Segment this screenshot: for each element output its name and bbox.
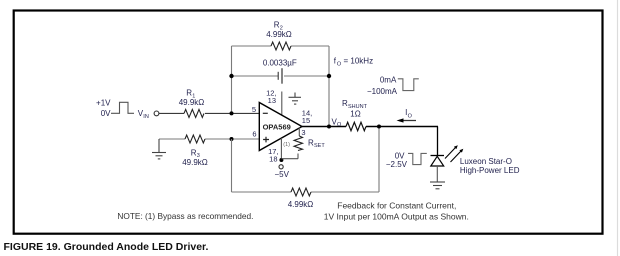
svg-text:1Ω: 1Ω [350,110,360,119]
svg-text:0.0033µF: 0.0033µF [263,58,297,67]
svg-text:5: 5 [252,105,256,114]
svg-text:O: O [337,61,342,67]
svg-text:Luxeon Star-O: Luxeon Star-O [460,157,512,166]
svg-text:18: 18 [269,155,277,164]
svg-text:3: 3 [301,128,305,137]
svg-text:0mA: 0mA [380,75,397,84]
svg-text:Feedback for Constant Current,: Feedback for Constant Current, [337,200,456,210]
svg-text:FIGURE 19. Grounded Anode LED: FIGURE 19. Grounded Anode LED Driver. [4,241,209,253]
svg-text:OPA569: OPA569 [263,123,291,132]
svg-text:15: 15 [302,116,310,125]
svg-text:−5V: −5V [274,170,289,179]
svg-text:0V: 0V [101,109,111,118]
svg-text:1V Input per 100mA Output as S: 1V Input per 100mA Output as Shown. [324,211,469,221]
svg-text:−100mA: −100mA [367,87,398,96]
svg-text:= 10kHz: = 10kHz [344,57,374,66]
svg-text:−2.5V: −2.5V [386,160,408,169]
svg-text:High-Power LED: High-Power LED [460,166,520,175]
svg-text:NOTE: (1) Bypass as recommende: NOTE: (1) Bypass as recommended. [117,211,253,221]
svg-text:0V: 0V [395,151,405,160]
svg-text:+1V: +1V [96,98,111,107]
svg-text:(1): (1) [283,142,290,148]
svg-text:4.99kΩ: 4.99kΩ [266,30,292,39]
svg-text:O: O [337,122,342,128]
svg-text:4.99kΩ: 4.99kΩ [288,200,314,209]
svg-text:6: 6 [252,129,256,138]
svg-text:SET: SET [314,143,325,149]
svg-text:49.9kΩ: 49.9kΩ [182,158,208,167]
svg-text:49.9kΩ: 49.9kΩ [179,98,205,107]
svg-text:IN: IN [143,114,149,120]
svg-text:O: O [408,113,413,119]
svg-text:13: 13 [268,96,276,105]
